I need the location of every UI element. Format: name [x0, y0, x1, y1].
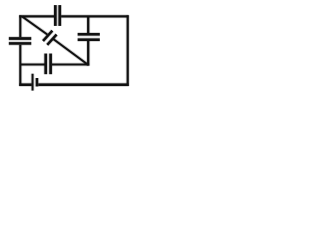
wire: top edge right segment (C2 to top-right corner) [61, 15, 129, 17]
battery B1 (bottom edge), short thick plate [36, 78, 39, 87]
wire: left edge lower segment (C1 to bottom-left corner, through node C) [19, 45, 21, 86]
wire: bottom edge right segment (corner to B1) [38, 83, 129, 86]
capacitor C2 (top edge), left plate [54, 5, 57, 26]
wire: diagonal lower segment (C3 to node D) [53, 39, 88, 65]
capacitor C1 (left edge), top plate [9, 37, 32, 40]
wire: right capacitor top lead (top edge to C4) [87, 16, 89, 33]
wire: right edge [127, 15, 129, 86]
wire: top edge left segment (node A to C2) [19, 15, 54, 17]
capacitor C3 (diagonal), lower plate [47, 35, 56, 45]
capacitor C4 (right branch), top plate [78, 33, 100, 36]
capacitor C5 (middle horizontal), left plate [44, 54, 47, 75]
battery B1, long thin plate [32, 74, 34, 91]
wire: middle horizontal right segment (C5 to node D) [52, 63, 89, 65]
capacitor C1 (left edge), bottom plate [9, 42, 32, 45]
capacitor C5 (middle horizontal), right plate [49, 54, 52, 75]
wire: bottom edge left segment (B1 to bottom-left corner) [19, 83, 31, 86]
wire: middle horizontal left segment (node C to C5) [20, 63, 44, 65]
capacitor C3 (diagonal), upper plate [43, 31, 52, 41]
wire: right capacitor bottom lead (C4 to node D) [87, 41, 89, 66]
capacitor C4 (right branch), bottom plate [78, 38, 100, 41]
wire: left edge upper segment (node A to C1) [19, 15, 21, 37]
wire: diagonal upper segment (node A to C3) [22, 16, 47, 34]
capacitor C2 (top edge), right plate [58, 5, 61, 26]
